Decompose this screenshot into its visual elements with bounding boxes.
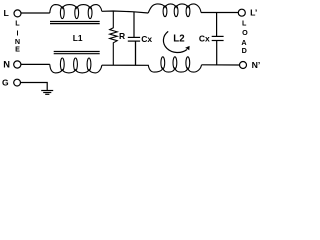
svg-text:R: R [119, 31, 125, 41]
svg-text:L: L [4, 8, 10, 18]
svg-text:L: L [242, 19, 247, 28]
svg-text:L’: L’ [250, 8, 257, 18]
svg-text:L: L [15, 18, 20, 27]
svg-text:N: N [3, 60, 10, 70]
svg-text:L2: L2 [173, 33, 184, 44]
svg-text:O: O [242, 28, 248, 37]
svg-text:Cx: Cx [141, 34, 152, 44]
svg-text:E: E [15, 45, 20, 54]
svg-text:Cx: Cx [199, 33, 210, 43]
svg-text:D: D [242, 46, 247, 55]
svg-text:L1: L1 [73, 33, 83, 43]
svg-text:G: G [2, 78, 9, 88]
svg-text:N’: N’ [252, 60, 261, 70]
